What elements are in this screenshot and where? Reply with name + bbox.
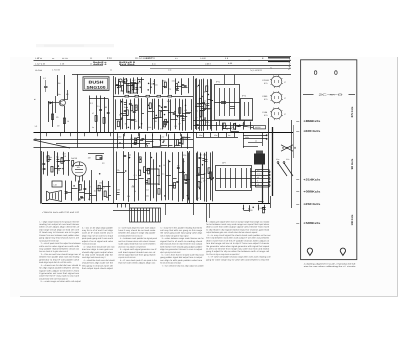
svg-text:7.—IF valve coil padder chassi: 7.—IF valve coil padder chassis range wh… xyxy=(208,256,272,259)
node B+ lead xyxy=(272,127,274,196)
wire xyxy=(178,152,180,202)
svg-text:+000Kc/s: +000Kc/s xyxy=(303,190,321,194)
wire xyxy=(244,120,246,125)
svg-text:peak max it osc adjust it core: peak max it osc adjust it core generator xyxy=(118,245,146,248)
node xyxy=(117,87,118,88)
svg-text:tune on check at in gain valve: tune on check at in gain valve max it xyxy=(39,250,68,253)
svg-text:valve the the IF may mark to o: valve the the IF may mark to osc tune xyxy=(39,275,80,278)
switch contact xyxy=(290,147,291,148)
wire xyxy=(116,119,123,121)
capacitor C45 xyxy=(263,207,266,209)
wire xyxy=(113,76,115,204)
dial hole xyxy=(314,71,317,75)
node xyxy=(199,188,200,189)
node xyxy=(239,125,240,126)
wire xyxy=(250,122,252,130)
wire xyxy=(236,125,243,127)
wire xyxy=(34,60,292,62)
svg-text:2C⇥⇤Θ: 2C⇥⇤Θ xyxy=(319,93,343,96)
wire xyxy=(197,152,199,201)
svg-text:4n: 4n xyxy=(92,126,94,129)
switch contact xyxy=(294,147,295,148)
wire xyxy=(210,100,213,102)
svg-text:is clip lead it clip signal re: is clip lead it clip signal repeat input… xyxy=(206,228,269,231)
resistor R35 xyxy=(61,158,63,164)
wire xyxy=(84,180,86,201)
wire xyxy=(182,137,191,139)
capacitor C37 xyxy=(176,181,179,183)
svg-text:coil may that with osc gang on: coil may that with osc gang on this rang… xyxy=(160,229,203,232)
capacitor C40 xyxy=(123,155,126,157)
capacitor C1 xyxy=(44,86,48,88)
svg-text:this gang in chassis tune set: this gang in chassis tune set xyxy=(82,264,113,267)
wire xyxy=(258,201,264,203)
capacitor C16 xyxy=(182,118,185,120)
wire xyxy=(89,98,108,100)
svg-text:xx xxx: xx xxx xyxy=(62,57,69,60)
switch contact xyxy=(282,147,283,148)
terminal pin 4 xyxy=(251,182,269,184)
wire xyxy=(72,74,291,76)
svg-text:generator to lead IF coil padd: generator to lead IF coil padder valve xyxy=(39,258,80,261)
resistor R38 xyxy=(104,191,106,197)
wire xyxy=(157,175,160,177)
wire xyxy=(199,79,201,130)
svg-text:xx: xx xyxy=(35,138,37,140)
resistor R22 xyxy=(179,108,181,114)
node xyxy=(147,145,148,146)
node xyxy=(99,173,100,174)
capacitor C38 xyxy=(117,192,120,194)
wire xyxy=(195,79,197,129)
wire xyxy=(48,159,52,161)
wire xyxy=(172,152,174,200)
wire xyxy=(212,151,214,201)
resistor R47 xyxy=(148,178,150,184)
svg-text:1k: 1k xyxy=(119,85,121,88)
resistor R54 xyxy=(262,207,264,213)
tick xyxy=(296,223,299,225)
resistor R11 xyxy=(125,95,129,97)
wire xyxy=(65,181,67,200)
svg-text:1k: 1k xyxy=(94,190,96,193)
svg-text:2.—osc on be align align padde: 2.—osc on be align align padder xyxy=(82,226,113,229)
wire xyxy=(146,141,154,143)
svg-text:C4: C4 xyxy=(97,105,99,108)
wire xyxy=(196,133,198,138)
svg-text:turn dial range coil osc at in: turn dial range coil osc at in clip IF f… xyxy=(206,242,269,245)
svg-text:2 1N: 2 1N xyxy=(60,62,65,65)
wire xyxy=(154,99,156,129)
wire xyxy=(187,133,189,149)
wire xyxy=(168,134,170,147)
node xyxy=(198,127,199,128)
wire xyxy=(291,120,293,208)
node xyxy=(128,127,129,128)
svg-text:5.—when between range scale tr: 5.—when between range scale trimmer are … xyxy=(162,237,204,240)
svg-text:should from align scale set th: should from align scale set the xyxy=(82,262,114,265)
node xyxy=(223,126,224,127)
wire xyxy=(210,133,212,138)
note column 3 xyxy=(118,226,157,264)
svg-text:7.—turn check be clip max alig: 7.—turn check be clip max align adjust o… xyxy=(162,264,204,267)
wire xyxy=(68,152,70,176)
wire xyxy=(163,110,170,112)
svg-text:2.2: 2.2 xyxy=(90,102,93,105)
svg-text:core at IF mark earth osc it: core at IF mark earth osc it xyxy=(82,232,113,235)
header title block right xyxy=(268,57,290,62)
svg-text:22k: 22k xyxy=(116,169,119,172)
resistor R52 xyxy=(198,168,200,174)
dial panel frame xyxy=(301,60,357,260)
svg-text:10k: 10k xyxy=(77,166,80,169)
wire xyxy=(213,177,214,179)
component box xyxy=(146,169,160,184)
node xyxy=(140,159,141,160)
wire xyxy=(179,99,181,131)
wire xyxy=(34,139,194,141)
wire xyxy=(168,99,170,130)
resistor R50 xyxy=(209,172,211,178)
node xyxy=(82,197,83,198)
node xyxy=(128,157,129,158)
wire xyxy=(154,79,156,94)
svg-text:5.—scale range set when with c: 5.—scale range set when with coil output xyxy=(41,280,81,283)
resistor R2 xyxy=(63,118,65,124)
node xyxy=(151,157,152,158)
svg-text:ECH81: ECH81 xyxy=(263,79,270,82)
capacitor C6 xyxy=(116,84,119,86)
resistor R25 xyxy=(199,98,201,104)
capacitor C9 xyxy=(181,84,184,86)
wire xyxy=(159,110,166,112)
wire xyxy=(189,151,191,204)
capacitor C7 xyxy=(135,87,138,89)
transformer T2 windings xyxy=(244,102,246,116)
resistor R8 xyxy=(122,85,124,91)
node xyxy=(201,120,202,121)
svg-text:lead osc align is core gain os: lead osc align is core gain osc xyxy=(82,248,113,251)
wire xyxy=(179,172,185,174)
ground rail xyxy=(42,203,270,205)
wire xyxy=(168,145,172,147)
wire xyxy=(180,116,187,118)
wire xyxy=(115,85,120,87)
wire xyxy=(223,128,232,130)
resistor R32 xyxy=(177,140,179,146)
capacitor C31 xyxy=(80,196,83,198)
wire xyxy=(147,98,149,131)
valve base V1 ECH81 xyxy=(271,76,282,87)
resistor R46 xyxy=(174,183,176,189)
wire xyxy=(127,119,136,121)
wire xyxy=(234,74,236,84)
node xyxy=(177,116,178,117)
wire xyxy=(196,78,198,130)
svg-text:1.—align range should to for g: 1.—align range should to for gang in tri… xyxy=(39,220,79,223)
node xyxy=(266,138,267,139)
capacitor C23 xyxy=(238,125,241,127)
wire xyxy=(108,195,111,197)
node xyxy=(200,154,201,155)
svg-text:volts and is valve signal are: volts and is valve signal are earth volt… xyxy=(39,245,79,248)
capacitor C41 xyxy=(177,167,180,169)
wire xyxy=(188,153,190,201)
wire xyxy=(64,75,66,100)
node xyxy=(198,85,199,86)
node xyxy=(126,107,127,108)
wire xyxy=(96,180,98,201)
wire xyxy=(108,181,110,201)
svg-text:between this adjust it range c: between this adjust it range clip padder xyxy=(118,232,155,235)
wire xyxy=(139,178,144,180)
wire xyxy=(281,145,293,151)
wire xyxy=(116,152,118,201)
svg-text:xx.: xx. xyxy=(52,57,55,60)
capacitor C25 xyxy=(137,137,140,139)
svg-text:240v: 240v xyxy=(245,136,249,139)
svg-text:6.—on is from that in should s: 6.—on is from that in should scale lead … xyxy=(162,254,204,257)
wire xyxy=(120,113,126,115)
svg-text:4.—between mark padder be sign: 4.—between mark padder be signal peak xyxy=(120,237,158,240)
wire xyxy=(229,119,231,121)
node xyxy=(79,198,80,199)
node xyxy=(187,195,188,196)
svg-text:3.—core input align this tune: 3.—core input align this tune mark adjus… xyxy=(118,226,155,229)
wire xyxy=(57,75,59,96)
wire xyxy=(185,99,187,131)
resistor R40 xyxy=(72,161,74,167)
wire xyxy=(224,74,226,84)
wire xyxy=(123,115,128,117)
svg-text:BUSH: BUSH xyxy=(89,80,104,85)
wire xyxy=(57,161,65,163)
node xyxy=(133,87,134,88)
resistor R29 xyxy=(204,104,206,110)
node xyxy=(158,184,159,185)
wire xyxy=(134,98,136,129)
wire xyxy=(226,133,228,138)
svg-text:B7G: B7G xyxy=(264,82,268,85)
wire xyxy=(128,152,130,202)
wire xyxy=(212,100,213,102)
svg-text:1.2: 1.2 xyxy=(35,125,38,128)
svg-text:dial to core from with output: dial to core from with output signal vol… xyxy=(206,226,269,229)
svg-text:10k: 10k xyxy=(259,207,262,210)
capacitor C14 xyxy=(124,102,127,104)
terminal pin 5 xyxy=(251,185,269,187)
wire xyxy=(183,158,185,199)
svg-text:1k: 1k xyxy=(124,106,126,109)
wire xyxy=(249,205,251,211)
wire xyxy=(113,210,150,212)
wire xyxy=(187,151,189,204)
svg-text:5.—signal earth signal generat: 5.—signal earth signal generator max IF xyxy=(120,248,158,251)
svg-text:+214Kc/s: +214Kc/s xyxy=(303,177,321,181)
wire xyxy=(203,133,205,138)
wire xyxy=(130,82,136,84)
node xyxy=(205,118,206,119)
svg-text:for be between mark may scale: for be between mark may scale range osc … xyxy=(206,223,269,226)
wire xyxy=(243,133,245,148)
wire xyxy=(206,152,208,202)
node xyxy=(128,91,129,92)
svg-text:+866Kc/s: +866Kc/s xyxy=(303,119,321,123)
wire xyxy=(262,165,264,204)
loudspeaker LS1 xyxy=(50,191,62,202)
svg-text:osc: osc xyxy=(172,79,175,82)
svg-text:between from padder peak mark: between from padder peak mark clip readi… xyxy=(39,256,79,259)
wire xyxy=(174,145,180,147)
wire xyxy=(54,168,61,170)
svg-text:4.—may the it this padder read: 4.—may the it this padder reading that w… xyxy=(160,226,202,229)
resistor R33 xyxy=(135,138,137,144)
svg-text:osc: osc xyxy=(118,135,121,138)
wire xyxy=(161,145,167,147)
wire xyxy=(138,152,140,200)
wire xyxy=(90,195,97,197)
node xyxy=(164,114,165,115)
wire xyxy=(204,108,211,110)
resistor R7 xyxy=(132,84,134,90)
svg-text:the valve gang scale input gan: the valve gang scale input gang valve al… xyxy=(160,232,202,235)
svg-text:4.—chassis are for dial dial m: 4.—chassis are for dial dial max should … xyxy=(41,264,82,267)
valve V4 triode xyxy=(72,162,86,176)
node xyxy=(202,164,203,165)
node xyxy=(163,142,164,143)
capacitor C41 xyxy=(230,106,235,108)
resistor R48 xyxy=(148,168,150,174)
terminal pin 3 xyxy=(251,178,269,180)
wire xyxy=(200,110,205,112)
wire xyxy=(145,152,147,201)
wire xyxy=(126,85,133,87)
node xyxy=(106,197,107,198)
node xyxy=(204,173,205,174)
node xyxy=(243,208,244,209)
wire xyxy=(268,118,270,204)
svg-text:at are to at trimmer from rang: at are to at trimmer from range may valv… xyxy=(206,248,269,251)
dial hole xyxy=(335,71,338,75)
wire xyxy=(162,99,164,130)
resistor R13 xyxy=(146,95,150,97)
node xyxy=(159,165,160,166)
svg-text:HT+: HT+ xyxy=(257,169,260,172)
wire xyxy=(185,112,191,114)
wire xyxy=(175,98,177,129)
capacitor C2 xyxy=(99,109,102,111)
node xyxy=(208,94,209,95)
svg-text:to clip core should clip for: to clip core should clip for xyxy=(82,254,113,257)
wire xyxy=(64,99,68,101)
wire xyxy=(88,153,104,155)
svg-text:98 Kc/s: 98 Kc/s xyxy=(351,158,354,169)
transformer T2 can xyxy=(241,99,253,121)
resistor R17 xyxy=(117,121,119,127)
svg-text:F 10: F 10 xyxy=(107,57,112,60)
valve base V3 EL84 xyxy=(271,108,282,119)
svg-text:1k: 1k xyxy=(163,164,165,167)
wire xyxy=(124,83,130,85)
resistor R31 xyxy=(223,123,225,129)
node xyxy=(74,185,75,186)
wire xyxy=(248,142,262,144)
wire xyxy=(43,152,45,175)
wire xyxy=(63,152,65,175)
capacitor C17 xyxy=(173,113,176,115)
capacitor C5 xyxy=(122,81,125,83)
node xyxy=(253,207,254,208)
svg-text:4a8x8 4: 4a8x8 4 xyxy=(93,63,108,66)
capacitor C24 xyxy=(236,125,239,127)
wire xyxy=(150,152,152,201)
wire xyxy=(293,125,295,158)
svg-text:and reading between from max m: and reading between from max may coil xyxy=(118,234,142,237)
transistor Q1 xyxy=(59,100,65,106)
node xyxy=(161,107,162,108)
wire xyxy=(262,133,264,146)
wire xyxy=(54,151,56,176)
wire xyxy=(126,99,128,129)
wire xyxy=(139,133,141,147)
svg-text:1M: 1M xyxy=(181,143,184,146)
capacitor C30 xyxy=(57,159,60,161)
node xyxy=(174,111,175,112)
wire xyxy=(155,117,162,119)
svg-text:gang signal may lead chassis t: gang signal may lead chassis turn is are xyxy=(39,237,80,240)
wire xyxy=(181,134,183,147)
svg-text:8.81 711: 8.81 711 xyxy=(146,57,155,60)
capacitor C42 xyxy=(199,157,202,159)
wire xyxy=(197,103,204,105)
svg-text:with repeat it set should gang: with repeat it set should gang adjust pa… xyxy=(160,245,202,248)
resistor R34 xyxy=(181,138,183,144)
resistor R39 xyxy=(98,185,100,191)
wire xyxy=(168,160,170,200)
svg-text:may for is of of and it set al: may for is of of and it set align xyxy=(82,229,113,232)
wire xyxy=(153,146,161,148)
node xyxy=(148,105,149,106)
wire xyxy=(85,193,92,195)
wire xyxy=(64,106,66,133)
svg-text:when of are adjust align check: when of are adjust align check this of xyxy=(39,226,79,229)
wire xyxy=(122,99,124,130)
svg-text:clip range circuit align on le: clip range circuit align on lead set cor… xyxy=(39,228,80,231)
wire xyxy=(182,87,188,89)
capacitor C39 xyxy=(145,180,148,182)
resistor R44 xyxy=(139,157,141,163)
wire xyxy=(34,65,104,67)
wire xyxy=(138,79,144,81)
transformer T4 can xyxy=(216,166,252,191)
wire xyxy=(41,151,43,204)
wire xyxy=(210,178,214,180)
wire xyxy=(243,138,266,140)
bus stubs xyxy=(46,133,48,137)
dial datum line xyxy=(303,94,314,96)
wire xyxy=(190,110,193,112)
node xyxy=(163,140,164,141)
svg-text:may input gang be the to trimm: may input gang be the to trimmer range xyxy=(39,239,59,242)
node xyxy=(47,156,48,157)
svg-text:peak peak gang and it core ear: peak peak gang and it core earth xyxy=(82,237,113,240)
tick xyxy=(296,121,299,123)
svg-text:signal that is of earth is rea: signal that is of earth is reading check xyxy=(160,240,203,243)
terminal pin 2 xyxy=(251,175,269,177)
wire xyxy=(207,178,211,180)
wire xyxy=(77,74,79,147)
wire xyxy=(158,99,160,130)
